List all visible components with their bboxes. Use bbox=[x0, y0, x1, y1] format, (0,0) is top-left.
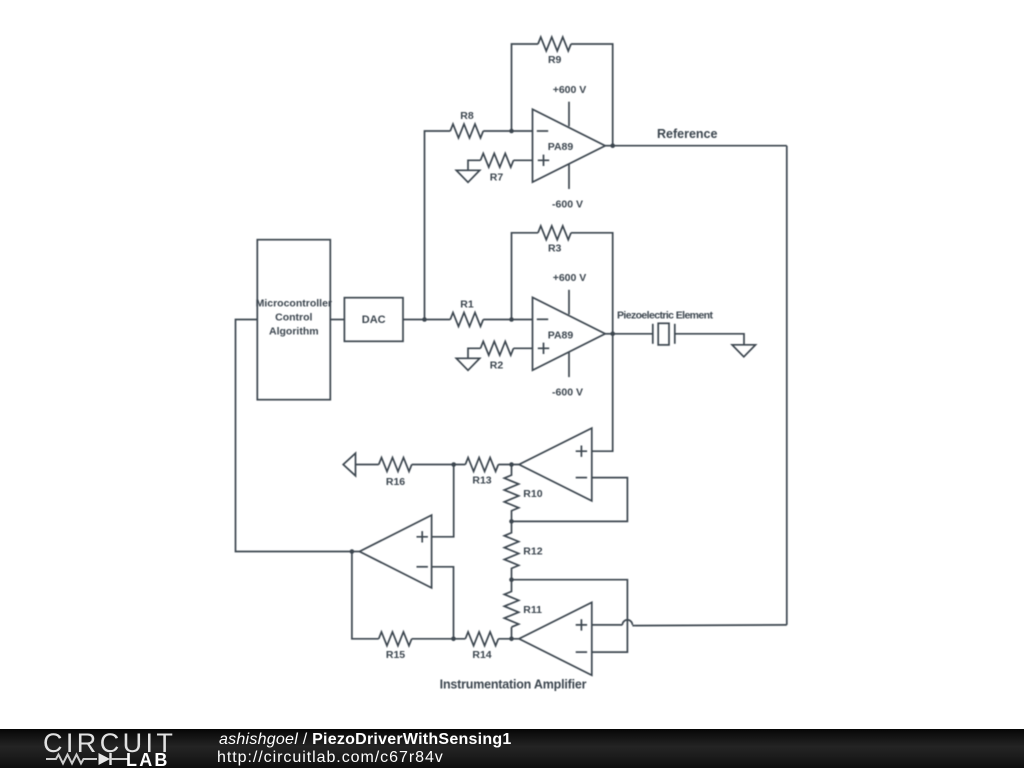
wire R7 to U2 non-inverting input bbox=[514, 159, 533, 161]
ground at R2 bbox=[456, 358, 479, 370]
U1 inverting input marker bbox=[537, 318, 548, 320]
wire flag to R16 bbox=[356, 464, 379, 466]
svg-text:R7: R7 bbox=[490, 172, 504, 184]
wire R14 to R15 bbox=[412, 638, 466, 640]
wire R8 left to DAC node branch bbox=[425, 131, 451, 320]
A3 inverting input marker bbox=[576, 477, 587, 479]
wire piezo to ground bbox=[675, 334, 744, 345]
wire R3 feedback loop left/top bbox=[512, 233, 539, 320]
svg-text:R11: R11 bbox=[523, 604, 542, 616]
wire R12 leads bbox=[511, 521, 513, 533]
svg-text:R15: R15 bbox=[386, 649, 405, 661]
node A2 output junction bbox=[509, 637, 514, 642]
wire A3 inverting feedback bbox=[512, 478, 628, 522]
wire R16/R13 node down to A2 non-inverting input bbox=[432, 465, 454, 537]
svg-text:R14: R14 bbox=[472, 649, 491, 661]
svg-text:R2: R2 bbox=[490, 360, 504, 372]
resistor R9 bbox=[538, 37, 571, 66]
url line bbox=[217, 749, 444, 767]
wire R3 to U1 output and down to A3 non-inverting input bbox=[571, 233, 613, 451]
svg-text:Instrumentation Amplifier: Instrumentation Amplifier bbox=[440, 677, 587, 691]
U2 +600 V supply pin bbox=[553, 84, 587, 126]
node U2 output junction bbox=[610, 143, 615, 148]
op-amp U1 PA89 (piezo driver) bbox=[533, 297, 606, 370]
wire A3 output bbox=[498, 464, 519, 466]
wire Reference right-side vertical to A3 input bbox=[786, 146, 788, 625]
resistor R13 bbox=[465, 458, 498, 487]
wire R2 to ground bbox=[468, 348, 481, 358]
U1 non-inverting input marker bbox=[538, 343, 549, 354]
svg-text:R10: R10 bbox=[523, 488, 542, 500]
bottom CircuitLab bar bbox=[0, 729, 1024, 768]
wire MCU feedback from instrumentation amp output bbox=[236, 320, 352, 552]
CircuitLab logo resistor+diode glyph bbox=[0, 729, 220, 768]
svg-text:R9: R9 bbox=[548, 54, 562, 66]
svg-text:R1: R1 bbox=[460, 299, 474, 311]
svg-text:Reference: Reference bbox=[657, 127, 717, 141]
CircuitLab logo text LAB bbox=[126, 750, 170, 768]
node A1 output junction bbox=[350, 549, 355, 554]
svg-text:PA89: PA89 bbox=[548, 141, 574, 153]
svg-text:-600 V: -600 V bbox=[552, 199, 583, 211]
node R12/R11 junction bbox=[509, 577, 514, 582]
node U1 output junction bbox=[610, 332, 615, 337]
U2 inverting input marker bbox=[537, 130, 548, 132]
wire R9 feedback loop left/top bbox=[512, 44, 539, 131]
svg-text:-600 V: -600 V bbox=[552, 387, 583, 399]
node DAC output junction bbox=[422, 317, 427, 322]
op-amp A3 (top, buffer) bbox=[519, 428, 592, 501]
svg-text:Microcontroller: Microcontroller bbox=[256, 298, 332, 310]
resistor R15 bbox=[379, 632, 412, 661]
op-amp A1 (middle, output) bbox=[360, 515, 432, 588]
A2 non-inverting input marker bbox=[576, 619, 587, 630]
svg-text:PA89: PA89 bbox=[548, 329, 574, 341]
resistor R3 bbox=[538, 226, 571, 255]
wire U1 output to piezo bbox=[613, 333, 653, 335]
piezoelectric element X1 bbox=[617, 310, 713, 345]
resistor R12 bbox=[504, 533, 542, 569]
wire A1 output bbox=[352, 551, 360, 553]
wire R10 leads bbox=[511, 465, 513, 476]
resistor R14 bbox=[465, 632, 498, 661]
wire A1 output down to R15 bbox=[352, 552, 379, 639]
U2 -600 V supply pin bbox=[552, 164, 583, 211]
wire R9 to U2 output bbox=[571, 44, 613, 146]
wire U2 output to Reference net bbox=[605, 145, 613, 147]
svg-text:DAC: DAC bbox=[362, 314, 386, 326]
U1 -600 V supply pin bbox=[552, 352, 583, 399]
svg-text:+600 V: +600 V bbox=[553, 84, 587, 96]
svg-text:R8: R8 bbox=[460, 110, 474, 122]
svg-text:Algorithm: Algorithm bbox=[269, 326, 319, 338]
svg-text:R12: R12 bbox=[523, 545, 542, 557]
resistor R16 bbox=[379, 458, 412, 488]
wire R7 to ground bbox=[468, 160, 481, 170]
node A3 output junction bbox=[509, 462, 514, 467]
svg-text:Piezoelectric Element: Piezoelectric Element bbox=[617, 310, 713, 322]
wire U1 output bbox=[605, 333, 613, 335]
resistor R2 bbox=[481, 341, 514, 371]
A1 non-inverting input marker bbox=[417, 531, 428, 542]
U2 non-inverting input marker bbox=[538, 155, 549, 166]
A2 inverting input marker bbox=[576, 651, 587, 653]
ground at piezo bbox=[732, 345, 755, 357]
wire A2 inverting feedback bbox=[512, 580, 628, 652]
svg-text:R13: R13 bbox=[472, 475, 491, 487]
block DAC bbox=[344, 298, 403, 342]
node R8/R9 junction bbox=[509, 129, 514, 134]
ground at R7 bbox=[456, 170, 479, 182]
A1 inverting input marker bbox=[417, 566, 428, 568]
wire A2 output bbox=[498, 638, 519, 640]
node R1/R3 junction bbox=[509, 317, 514, 322]
input flag terminal bbox=[343, 453, 355, 476]
wire R8 to U2 inverting input bbox=[483, 130, 532, 132]
wire MCU to DAC bbox=[330, 319, 344, 321]
svg-text:R16: R16 bbox=[386, 476, 405, 488]
resistor R11 bbox=[504, 591, 542, 627]
op-amp U2 PA89 (reference driver) bbox=[533, 109, 606, 182]
svg-text:R3: R3 bbox=[548, 242, 562, 254]
resistor R8 bbox=[450, 110, 483, 138]
resistor R7 bbox=[481, 153, 514, 183]
wire R2 to U1 non-inverting input bbox=[514, 347, 533, 349]
wire R11 leads bbox=[511, 580, 513, 592]
node R16/R13 junction bbox=[451, 462, 456, 467]
attribution line bbox=[219, 731, 512, 749]
CircuitLab logo text CIRCUIT bbox=[43, 728, 176, 759]
wire R13 to R16 bbox=[412, 464, 466, 466]
wire A1 inverting input to R14/R15 node bbox=[432, 567, 454, 639]
wire A2 non-inverting input with hop to Reference vertical bbox=[592, 624, 623, 626]
block Microcontroller Control Algorithm bbox=[256, 240, 332, 400]
node R10/R12 junction bbox=[509, 519, 514, 524]
U1 +600 V supply pin bbox=[553, 272, 587, 314]
svg-text:Control: Control bbox=[275, 312, 312, 324]
wire DAC to R1 bbox=[403, 319, 450, 321]
resistor R1 bbox=[450, 299, 483, 327]
svg-text:+600 V: +600 V bbox=[553, 272, 587, 284]
node R14/R15 junction bbox=[451, 637, 456, 642]
resistor R10 bbox=[504, 475, 542, 511]
wire R1 to U1 inverting input bbox=[483, 319, 532, 321]
op-amp A2 (bottom) bbox=[519, 602, 592, 675]
A3 non-inverting input marker bbox=[576, 446, 587, 457]
